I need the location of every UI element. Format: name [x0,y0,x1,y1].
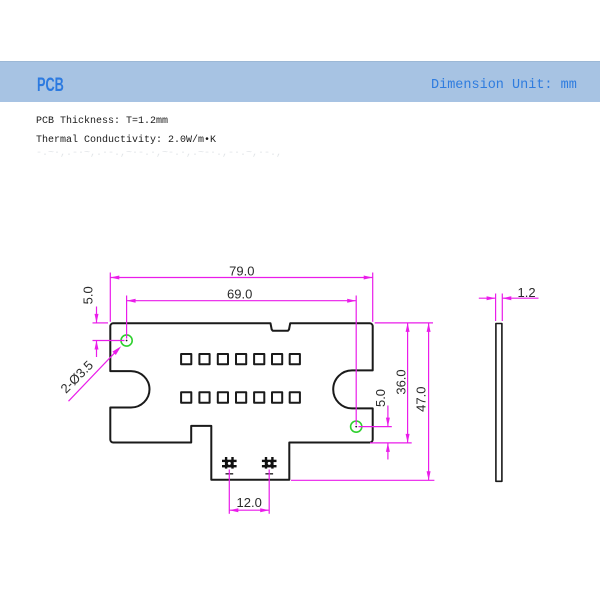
dimension 1.2 [479,294,539,322]
dimension 5.0 left [93,307,125,358]
LED pads row 1 [181,354,300,364]
solder pad hash left [222,457,237,469]
PCB outline [110,323,372,480]
svg-text:5.0: 5.0 [373,389,388,407]
svg-text:1.2: 1.2 [518,285,536,300]
svg-text:12.0: 12.0 [237,495,262,510]
dimension 69.0 [127,296,357,425]
header right label Dimension Unit: mm [431,78,577,93]
dimension 12.0 [229,470,269,514]
dimension 5.0 right [359,406,392,460]
svg-text:69.0: 69.0 [227,286,252,301]
svg-text:79.0: 79.0 [229,263,254,278]
side view board [496,324,502,482]
header bar [0,61,600,102]
solder pad hash right [262,457,277,469]
center tick below left pad [226,473,234,475]
svg-text:2-Ø3.5: 2-Ø3.5 [57,357,96,396]
note line 3 faded ghost text [36,148,282,159]
svg-text:5.0: 5.0 [80,286,95,304]
label 2-dia3.5 leader [69,348,120,401]
svg-text:36.0: 36.0 [394,369,409,394]
svg-text:47.0: 47.0 [414,387,429,412]
dimension 36.0 [370,323,433,443]
header title PCB [37,75,64,97]
dimension 79.0 [110,273,372,322]
LED pads row 2 [181,392,300,403]
note line 1 PCB thickness [36,116,168,127]
mounting hole left [121,335,132,346]
center tick below right pad [265,473,273,475]
dimension 47.0 [291,323,434,480]
note line 2 thermal conductivity [36,135,216,146]
mounting hole right [351,421,362,432]
